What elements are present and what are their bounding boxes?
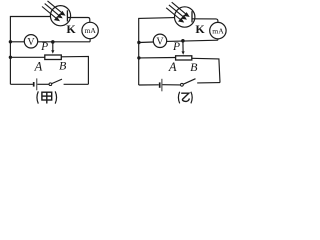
svg-text:P: P <box>40 41 48 53</box>
svg-text:A: A <box>34 59 43 73</box>
svg-text:K: K <box>195 22 205 36</box>
svg-text:K: K <box>66 22 76 36</box>
svg-text:V: V <box>27 37 35 48</box>
svg-text:B: B <box>59 59 67 73</box>
svg-text:B: B <box>190 60 198 74</box>
svg-text:P: P <box>172 41 180 53</box>
svg-text:V: V <box>156 36 164 47</box>
svg-text:mA: mA <box>85 26 97 35</box>
svg-text:A: A <box>168 60 177 74</box>
svg-text:mA: mA <box>212 26 224 35</box>
